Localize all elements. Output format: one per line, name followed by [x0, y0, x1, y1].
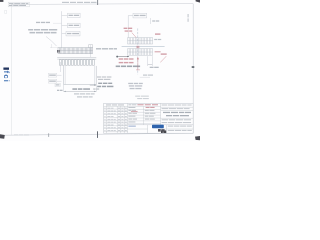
svg-text:fci: fci [2, 71, 11, 84]
